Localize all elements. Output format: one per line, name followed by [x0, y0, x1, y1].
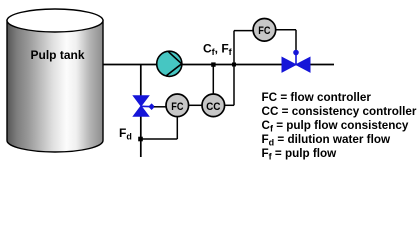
svg-text:Fd: Fd: [119, 126, 132, 142]
svg-text:Cf = pulp flow consistency: Cf = pulp flow consistency: [262, 119, 409, 134]
svg-text:Ff = pulp flow: Ff = pulp flow: [262, 147, 338, 162]
svg-text:FC: FC: [171, 101, 183, 113]
svg-text:Pulp tank: Pulp tank: [31, 48, 85, 62]
svg-text:CC: CC: [206, 101, 220, 113]
svg-text:Fd = dilution water flow: Fd = dilution water flow: [262, 133, 391, 148]
svg-text:FC = flow controller: FC = flow controller: [262, 91, 372, 104]
svg-text:Cf, Ff: Cf, Ff: [203, 42, 233, 58]
svg-text:CC = consistency controller: CC = consistency controller: [262, 105, 417, 118]
svg-text:FC: FC: [258, 25, 270, 37]
